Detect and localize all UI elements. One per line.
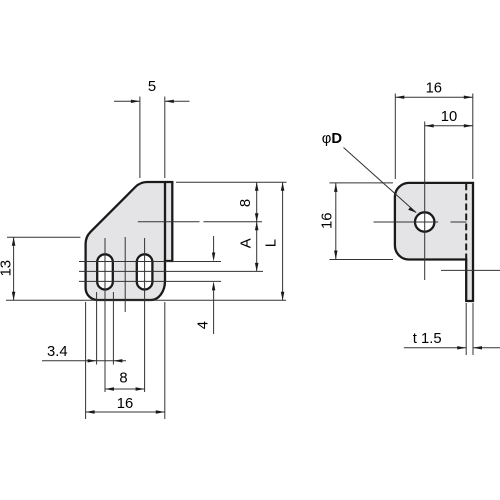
dimension L xyxy=(282,182,284,300)
dimension 13 extension line top xyxy=(7,236,80,238)
dimension 16 top extension lines xyxy=(394,94,396,180)
hole D xyxy=(415,212,434,231)
svg-text:10: 10 xyxy=(441,109,457,125)
svg-text:5: 5 xyxy=(148,79,156,95)
dimension 5 extension lines xyxy=(139,97,141,179)
front view vertical centerline xyxy=(124,237,126,312)
front view bracket outline xyxy=(86,182,173,300)
hole horizontal centerline xyxy=(374,221,439,223)
svg-text:3.4: 3.4 xyxy=(47,344,68,360)
svg-text:A: A xyxy=(238,238,254,248)
dimension 13 xyxy=(13,237,15,300)
svg-text:16: 16 xyxy=(117,396,133,412)
svg-text:8: 8 xyxy=(119,371,127,387)
horizontal line slot center xyxy=(79,270,263,272)
dimension 16 top xyxy=(395,96,473,98)
dimension 3.4 xyxy=(42,360,126,362)
slot 1 centerline xyxy=(104,238,106,392)
slot 2 centerline xyxy=(144,238,146,392)
dimension 4 xyxy=(213,236,215,253)
slot 1 xyxy=(97,254,113,289)
dimension 10 xyxy=(425,125,473,127)
dimension A xyxy=(256,222,258,272)
horizontal line slot bottom tangent xyxy=(79,280,221,282)
svg-text:φD: φD xyxy=(322,131,343,147)
front view bend tangent line xyxy=(138,221,200,223)
dimension 16 bottom extension lines xyxy=(85,302,87,419)
svg-text:t 1.5: t 1.5 xyxy=(413,331,442,347)
dimension 16 bottom xyxy=(86,411,165,413)
horizontal line slot top tangent xyxy=(79,261,221,263)
side view bracket outline xyxy=(395,183,473,301)
front view flange edge separator line xyxy=(164,182,166,261)
dimension 16 side extension lines xyxy=(330,182,394,184)
dimension 5 xyxy=(114,100,140,102)
dimension 8 bottom xyxy=(105,388,145,390)
svg-text:4: 4 xyxy=(196,321,212,329)
bottom edge long extension line xyxy=(6,299,286,301)
hole vertical centerline xyxy=(424,122,426,281)
top edge extension line right xyxy=(176,181,287,183)
svg-text:8: 8 xyxy=(238,199,254,207)
svg-text:L: L xyxy=(264,239,280,247)
slot 2 xyxy=(137,254,153,289)
svg-text:16: 16 xyxy=(426,81,442,97)
dimension 8 right side xyxy=(256,182,258,222)
dimension 16 side xyxy=(335,183,337,260)
leader line phi D xyxy=(344,148,417,213)
svg-text:16: 16 xyxy=(319,213,335,229)
dimension t 1.5 xyxy=(404,347,466,349)
bend line extension right xyxy=(203,221,262,223)
dimension 3.4 extension lines xyxy=(96,292,98,365)
side view reference line right xyxy=(441,269,500,271)
dimension t 1.5 extension lines xyxy=(465,303,467,355)
side view bend dashed line xyxy=(465,184,467,260)
svg-text:13: 13 xyxy=(0,260,14,276)
